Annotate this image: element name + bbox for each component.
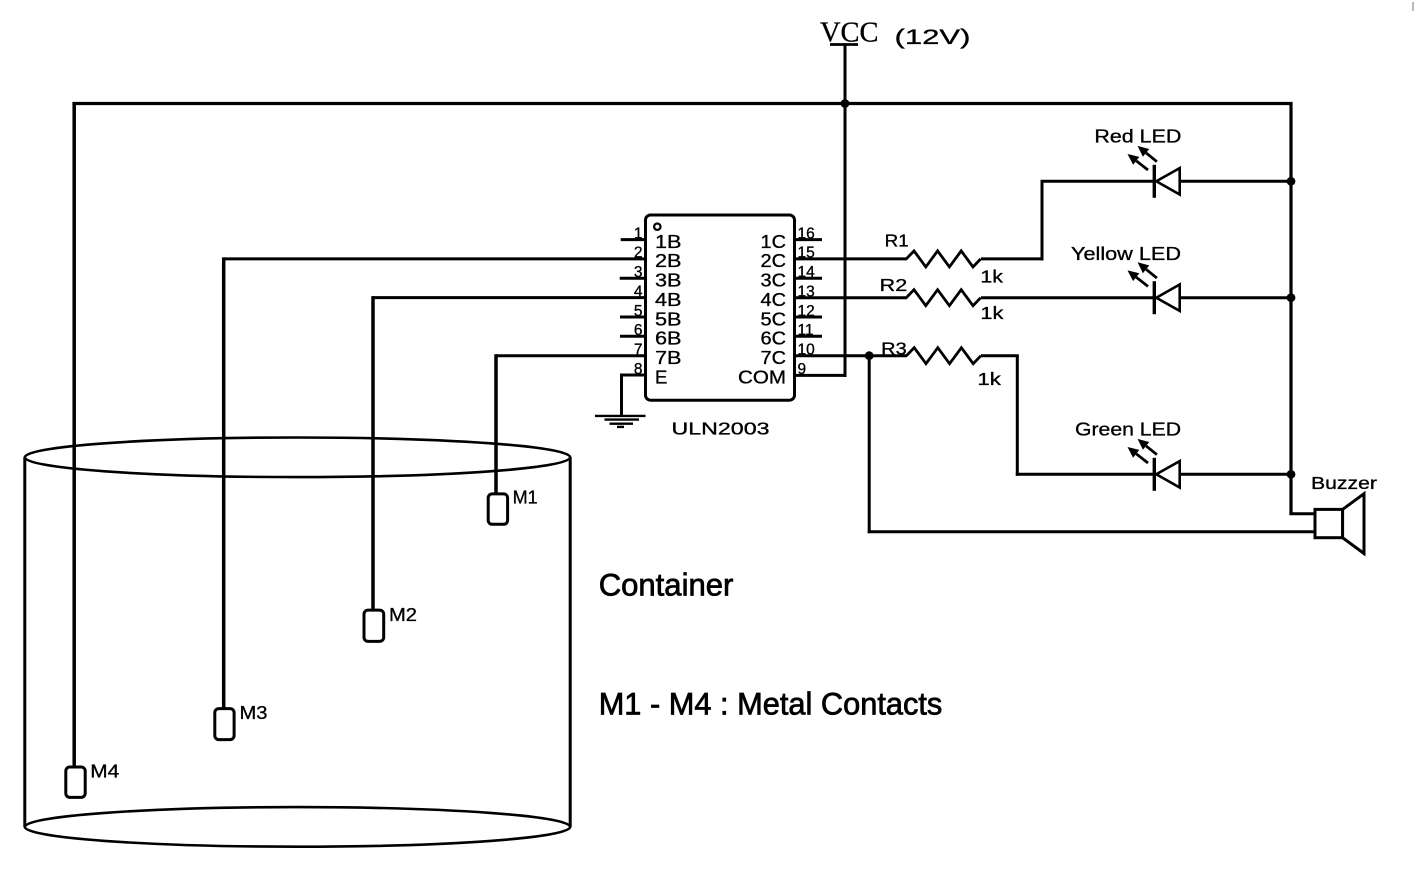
svg-text:1k: 1k (977, 369, 1001, 389)
svg-text:16: 16 (798, 225, 815, 242)
svg-text:3C: 3C (761, 270, 787, 291)
svg-text:8: 8 (634, 361, 643, 378)
svg-text:9: 9 (798, 361, 807, 378)
svg-text:(12V): (12V) (895, 25, 971, 49)
svg-text:Red LED: Red LED (1094, 126, 1181, 147)
svg-text:VCC: VCC (820, 17, 879, 49)
svg-text:M4: M4 (90, 761, 119, 782)
svg-text:E: E (655, 366, 667, 387)
svg-text:R1: R1 (885, 230, 909, 250)
svg-text:15: 15 (798, 245, 815, 262)
svg-text:1B: 1B (655, 231, 682, 252)
svg-text:7B: 7B (655, 347, 682, 368)
svg-text:6: 6 (634, 322, 643, 339)
svg-text:10: 10 (798, 342, 816, 359)
svg-text:7C: 7C (761, 347, 787, 368)
svg-text:4B: 4B (655, 289, 682, 310)
svg-text:1: 1 (634, 225, 643, 242)
svg-text:5: 5 (634, 303, 643, 320)
svg-text:R3: R3 (881, 338, 907, 358)
svg-text:M3: M3 (240, 702, 268, 723)
svg-text:6C: 6C (761, 328, 787, 349)
svg-text:2: 2 (634, 245, 643, 262)
svg-text:1k: 1k (980, 303, 1003, 323)
svg-text:M1 - M4 : Metal Contacts: M1 - M4 : Metal Contacts (599, 686, 943, 722)
svg-text:3B: 3B (655, 270, 682, 291)
svg-text:5B: 5B (655, 308, 682, 329)
svg-text:12: 12 (798, 303, 815, 320)
svg-text:2B: 2B (655, 250, 682, 271)
svg-text:4C: 4C (761, 289, 787, 310)
svg-text:Green LED: Green LED (1075, 419, 1181, 440)
svg-text:5C: 5C (761, 308, 787, 329)
svg-text:11: 11 (798, 322, 814, 339)
svg-text:Container: Container (599, 567, 734, 603)
svg-text:Yellow LED: Yellow LED (1071, 243, 1181, 264)
svg-text:M2: M2 (389, 604, 417, 625)
svg-text:R2: R2 (880, 275, 908, 295)
svg-text:M1: M1 (513, 487, 538, 508)
svg-text:3: 3 (634, 264, 643, 281)
svg-text:7: 7 (634, 342, 643, 359)
svg-text:ULN2003: ULN2003 (672, 418, 770, 438)
svg-text:COM: COM (738, 366, 786, 387)
svg-text:1C: 1C (761, 231, 787, 252)
svg-text:13: 13 (798, 283, 815, 300)
svg-text:4: 4 (634, 283, 643, 300)
svg-text:14: 14 (798, 264, 816, 281)
svg-text:2C: 2C (761, 250, 787, 271)
svg-text:Buzzer: Buzzer (1311, 473, 1377, 493)
svg-text:1k: 1k (980, 267, 1003, 287)
svg-text:6B: 6B (655, 328, 682, 349)
